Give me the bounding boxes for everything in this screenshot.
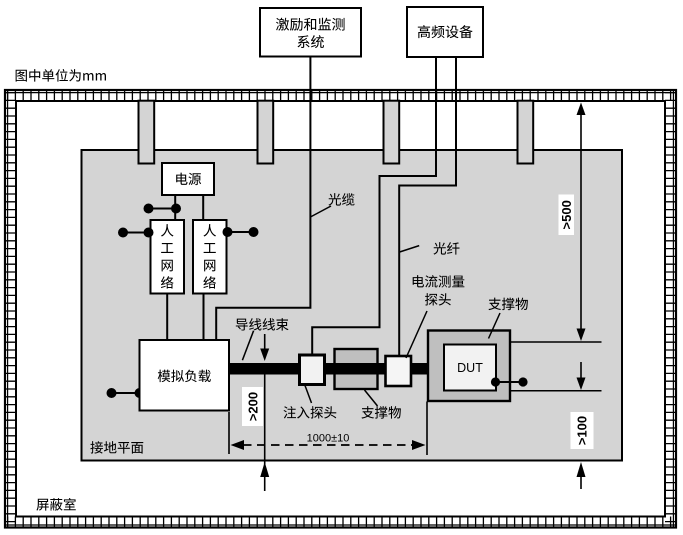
leader: middle support label [365,390,378,406]
label 注入探头 [284,406,337,418]
reference line from DUT support top level [510,341,602,343]
leader: optical cable label [310,206,331,217]
wire: artificial network 2 to simulated load [203,294,205,342]
leader: injection probe label [305,386,312,404]
box: artificial network 2 (人工网络) [193,220,227,294]
wire harness (导线线束) thick conductor [229,363,428,375]
leader: wire harness label [242,331,253,361]
label 光缆 [328,193,354,205]
ground plane (接地平面) gray slab [82,150,623,461]
box: high frequency equipment (高频设备) [407,7,483,57]
wire: power supply to artificial network 2 [202,195,204,221]
dimension arrow up to ground plane bottom edge (>100 pair) [577,462,586,489]
connector stub left of simulated load [112,392,140,394]
label 屏蔽室 [36,498,75,511]
box: simulated load (模拟负载) [140,340,230,411]
leader: current measuring probe label [406,311,427,358]
dimension >200 vertical line with outside arrows [260,334,269,491]
ground plane bonding strap 1 [139,101,155,164]
wire: power supply to artificial network 1 [174,195,176,221]
box: artificial network 1 (人工网络) [151,220,185,294]
reference line from DUT bottom level [510,390,602,392]
label 电流测量 / 探头 [413,275,465,305]
label 接地平面 [90,441,143,453]
svg-text:DUT: DUT [457,361,483,375]
connector stub on power line [149,208,177,210]
wire: optical fiber from HF equipment to measuring probe [399,57,456,356]
label 支撑物 (middle support) [361,406,400,418]
svg-text:>100: >100 [575,416,590,445]
DUT [444,345,496,391]
label >100 [571,412,594,449]
dimension >500 vertical arrow [577,103,586,342]
leader: optical fiber label [400,246,420,252]
wire: artificial network 1 to simulated load [166,294,168,342]
svg-text:1000±10: 1000±10 [307,433,350,445]
label 图中单位为mm [16,69,106,82]
connector stub left of artificial network 1 [123,232,149,234]
label >500 [559,195,575,236]
connector stub right of artificial network 2 [228,231,254,233]
svg-text:>500: >500 [559,200,574,229]
box: stimulus and monitoring system (激励和监测系统) [260,8,361,57]
dimension arrow down to DUT bottom reference [577,362,586,390]
box: power supply (电源) [162,163,214,195]
wire: optical cable from stimulus/monitoring system to simulated load [216,57,310,341]
wire: coax 1 from HF equipment to injection probe [312,57,436,355]
ground plane bonding strap 3 [384,101,400,164]
DUT support block (支撑物) [428,331,510,402]
label 光纤 [433,242,459,254]
connector stub right of DUT [496,381,524,383]
support block under harness (支撑物) [335,349,378,389]
injection probe (注入探头) [300,355,325,385]
label 支撑物 (DUT support) [488,298,527,310]
ground plane bonding strap 2 [258,101,274,164]
label >200 [242,387,263,426]
leader: DUT support label [489,313,501,339]
ground plane bonding strap 4 [518,101,534,164]
current measuring probe (电流测量探头) [386,356,412,386]
svg-text:>200: >200 [246,392,261,421]
label 导线线束 [236,318,289,330]
dimension 1000±10 dashed line [229,402,427,456]
